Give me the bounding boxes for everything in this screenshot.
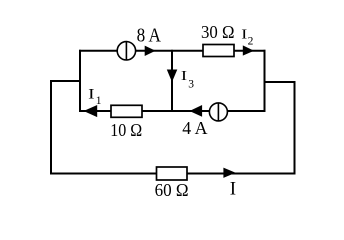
svg-text:1: 1: [96, 95, 102, 107]
svg-text:2: 2: [248, 36, 254, 48]
svg-text:10 Ω: 10 Ω: [110, 120, 142, 140]
svg-text:60 Ω: 60 Ω: [155, 180, 189, 200]
svg-text:8 A: 8 A: [137, 26, 161, 47]
svg-text:I: I: [181, 69, 188, 84]
svg-text:I: I: [230, 178, 236, 199]
svg-text:30 Ω: 30 Ω: [201, 22, 235, 42]
svg-text:I: I: [88, 86, 94, 102]
svg-text:4 A: 4 A: [182, 118, 207, 138]
svg-text:3: 3: [188, 79, 194, 91]
